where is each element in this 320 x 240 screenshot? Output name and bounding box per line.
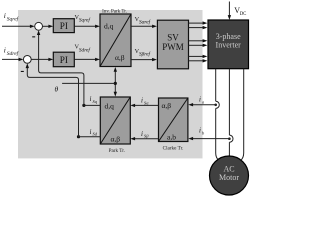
junction dot theta — [114, 82, 117, 85]
rotor angle wire theta (horizontal) — [62, 82, 115, 84]
supply wire V_DC — [228, 2, 231, 20]
node label i_Sq — [90, 95, 98, 104]
inverse Park transform block — [100, 14, 131, 67]
svg-text:b: b — [202, 130, 205, 135]
feedback wire i_Sd to summing junction S2 — [26, 63, 79, 136]
svg-text:Park Tr.: Park Tr. — [109, 148, 125, 154]
minus sign at S2 — [21, 71, 24, 72]
node label V_Sqref — [75, 14, 92, 24]
input label i_Sdref — [4, 45, 20, 57]
svg-text:α,β: α,β — [162, 101, 172, 110]
SV PWM block — [157, 20, 188, 69]
svg-text:PI: PI — [60, 21, 68, 31]
sense label i_a — [199, 96, 205, 105]
svg-text:i: i — [141, 130, 143, 138]
node label i_Sbeta — [141, 130, 149, 139]
node i_Sq junction dot — [82, 104, 85, 107]
svg-text:a: a — [202, 99, 205, 104]
phase wire b (inverter to motor) — [228, 69, 230, 156]
wire PI2 to inverse Park — [74, 58, 100, 61]
svg-text:PI: PI — [60, 55, 68, 65]
svg-text:i: i — [141, 97, 143, 105]
svg-text:Sα: Sα — [144, 100, 149, 105]
svg-text:Sdref: Sdref — [79, 46, 92, 53]
wire Park output i_Sq to junction — [84, 104, 100, 106]
feedback wire i_Sq to summing junction S1 — [37, 30, 84, 105]
summing junction S2 — [23, 56, 31, 64]
svg-text:Sdref: Sdref — [7, 50, 20, 57]
svg-text:PWM: PWM — [162, 42, 184, 52]
node i_Sd junction dot — [77, 135, 80, 138]
wire PI1 to inverse Park — [74, 25, 100, 28]
svg-text:i: i — [4, 11, 6, 20]
Clarke transform block — [159, 98, 188, 142]
controller background panel — [18, 10, 203, 158]
PI controller PI2 — [53, 52, 74, 66]
svg-text:Sqref: Sqref — [7, 16, 20, 23]
phase wire a (inverter to motor) — [216, 69, 219, 161]
svg-text:Sαref: Sαref — [139, 19, 152, 26]
node label V_Salpharef — [135, 16, 152, 26]
svg-text:Sqref: Sqref — [79, 17, 92, 24]
AC motor — [210, 156, 249, 195]
svg-text:Motor: Motor — [219, 173, 239, 182]
svg-text:i: i — [199, 96, 201, 104]
wire inverse Park to SVPWM (alpha) — [131, 25, 157, 28]
node label V_Sbetaref — [135, 48, 152, 58]
supply label V_DC — [234, 6, 246, 17]
sense wire i_a to Clarke — [188, 103, 215, 106]
summing junction S1 — [35, 22, 43, 30]
svg-text:DC: DC — [240, 12, 247, 17]
svg-text:d,q: d,q — [105, 102, 115, 111]
node label V_Sdref — [75, 44, 92, 54]
svg-text:d,q: d,q — [104, 22, 114, 31]
Park transform block — [100, 97, 130, 144]
wire Clarke to Park (alpha) — [130, 104, 158, 107]
wire Clarke to Park (beta) — [130, 137, 158, 140]
wire i_Sdref input — [2, 58, 23, 61]
svg-text:Sβref: Sβref — [139, 51, 152, 58]
wire S1 to PI1 — [43, 25, 54, 28]
svg-text:α,β: α,β — [115, 53, 125, 62]
svg-text:θ: θ — [55, 85, 59, 94]
rotor angle wire theta (vertical, into both Park blocks) — [114, 67, 117, 97]
svg-text:i: i — [90, 128, 92, 136]
svg-text:Clarke Tr.: Clarke Tr. — [163, 146, 184, 152]
minus sign at S1 — [32, 36, 35, 37]
svg-text:α,β: α,β — [111, 135, 121, 144]
wire S2 to PI2 — [31, 58, 53, 61]
node label i_Salpha — [141, 97, 149, 106]
wire Park output i_Sd to junction — [79, 136, 101, 138]
3-phase inverter block — [208, 20, 249, 69]
svg-text:i: i — [4, 45, 6, 54]
wire i_Sqref input — [2, 25, 35, 28]
svg-text:Inverter: Inverter — [216, 41, 242, 50]
PWM gate wires to inverter (6) — [189, 21, 208, 62]
node label i_Sd — [90, 128, 98, 137]
sense wire i_b to Clarke — [188, 137, 229, 140]
sense label i_b — [199, 127, 205, 136]
PI controller PI1 — [53, 19, 74, 33]
phase wire c (inverter to motor) — [241, 69, 244, 161]
svg-text:i: i — [90, 95, 92, 103]
wire inverse Park to SVPWM (beta) — [131, 58, 157, 61]
current sensor tap i_b — [228, 135, 233, 142]
input label i_Sqref — [4, 11, 20, 23]
current sensor tap i_a — [214, 101, 219, 108]
svg-text:a,b: a,b — [167, 133, 176, 142]
svg-text:i: i — [199, 127, 201, 135]
